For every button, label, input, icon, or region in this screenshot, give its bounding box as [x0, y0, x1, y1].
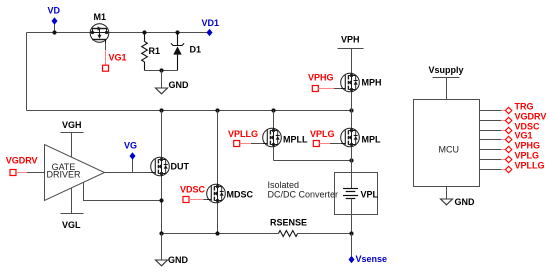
svg-text:VG: VG: [124, 141, 137, 151]
node VD (blue supply node on top rail): [48, 6, 61, 35]
svg-text:Vsupply: Vsupply: [429, 65, 464, 75]
svg-text:GND: GND: [168, 255, 189, 265]
wire: mid horizontal rail: [27, 110, 352, 112]
MCU pin VGDRV: [480, 112, 547, 124]
transistor MPH: [341, 73, 382, 92]
svg-text:VPL: VPL: [361, 190, 379, 200]
svg-text:VG1: VG1: [109, 53, 127, 63]
MCU pin VDSC: [480, 122, 541, 134]
transistor M1 (horizontal FET, gate down): [90, 12, 109, 43]
svg-text:VGL: VGL: [62, 220, 81, 230]
MCU pin VPLG: [480, 151, 540, 163]
junction dots on mid rail: [159, 108, 163, 112]
svg-text:VGDRV: VGDRV: [6, 156, 38, 166]
isolated DC/DC converter label: [268, 180, 339, 200]
VDSC gate terminal of MDSC: [180, 185, 207, 203]
svg-text:MPL: MPL: [362, 135, 382, 145]
ground (MCU): [441, 187, 476, 208]
svg-text:GND: GND: [169, 80, 190, 90]
svg-text:Vsense: Vsense: [356, 254, 388, 264]
Vsupply bar of MCU: [429, 65, 464, 100]
ground (bottom left): [156, 234, 189, 266]
svg-text:VPLG: VPLG: [515, 151, 540, 161]
MCU U2: [414, 100, 480, 187]
ground (R1/D1): [156, 71, 190, 94]
transistor MPLL: [263, 128, 308, 147]
MCU pin VPLLG: [480, 161, 545, 173]
transistor MDSC: [207, 184, 254, 203]
wire: left vertical drop: [26, 33, 28, 111]
svg-text:VPLG: VPLG: [310, 129, 335, 139]
transistor DUT: [151, 157, 190, 176]
node VD1: [202, 18, 220, 36]
svg-text:VGH: VGH: [62, 120, 82, 130]
junction: GND tap of R1/D1: [159, 68, 163, 72]
wire: MPLL/MPL source join: [274, 160, 352, 162]
VPLG gate terminal of MPL: [310, 129, 341, 147]
svg-text:MDSC: MDSC: [227, 190, 254, 200]
svg-text:VPLLG: VPLLG: [228, 129, 258, 139]
svg-text:DC/DC Converter: DC/DC Converter: [268, 190, 339, 200]
svg-text:VPHG: VPHG: [515, 141, 541, 151]
wire: top rail y=32 from left corner to VD1: [27, 32, 210, 34]
svg-text:VDSC: VDSC: [180, 185, 206, 195]
transistor MPL: [341, 128, 381, 147]
gate driver U1: [45, 145, 105, 201]
svg-text:VD: VD: [48, 6, 61, 16]
svg-text:VPLLG: VPLLG: [515, 161, 545, 171]
svg-text:VGDRV: VGDRV: [515, 112, 547, 122]
wire: MPH source down to rail and MPL drain: [351, 92, 353, 128]
svg-text:MCU: MCU: [439, 145, 460, 155]
VPLLG gate terminal of MPLL: [228, 129, 263, 147]
svg-text:M1: M1: [94, 12, 107, 22]
wire: kelvin source feedback to gate driver: [84, 182, 162, 200]
svg-text:R1: R1: [149, 46, 161, 56]
svg-text:DRIVER: DRIVER: [46, 170, 81, 180]
VPHG gate terminal of MPH: [308, 73, 341, 92]
VPL battery box: [335, 173, 379, 234]
MCU pin VPHG: [480, 141, 541, 153]
svg-text:GND: GND: [455, 197, 476, 207]
wire: MDSC column: [217, 111, 219, 234]
svg-text:MPLL: MPLL: [283, 135, 308, 145]
VGDRV input terminal: [6, 156, 45, 176]
wire: MPL source down to VPL battery: [351, 147, 353, 189]
svg-text:DUT: DUT: [171, 162, 190, 172]
MCU pin VG1: [480, 131, 533, 143]
VG1 gate terminal of M1: [103, 43, 127, 71]
resistor RSENSE: [270, 218, 307, 237]
junction dots on bottom rail: [159, 231, 163, 235]
svg-text:VD1: VD1: [202, 18, 220, 28]
wire: gate driver output to DUT gate: [105, 172, 153, 174]
wire: MPLL column: [273, 111, 275, 161]
svg-text:D1: D1: [190, 45, 202, 55]
svg-text:VPH: VPH: [341, 35, 360, 45]
diode D1 (zener, cathode up): [171, 30, 201, 70]
resistor R1: [142, 30, 160, 70]
svg-text:MPH: MPH: [362, 78, 382, 88]
wire: DUT drain column: [161, 111, 163, 234]
VGH supply bar of gate driver: [61, 120, 84, 157]
VGL supply bar of gate driver: [61, 188, 84, 230]
svg-text:Isolated: Isolated: [268, 180, 300, 190]
VPH supply bar: [338, 35, 364, 74]
MCU pin TRG: [480, 102, 534, 114]
svg-text:VPHG: VPHG: [308, 73, 334, 83]
svg-text:VG1: VG1: [515, 131, 533, 141]
node VG: [124, 141, 137, 173]
svg-text:TRG: TRG: [515, 102, 534, 112]
wire: bottom rail with RSENSE: [162, 233, 279, 235]
wire: R1-D1 bottom joining wire: [145, 70, 178, 72]
junction: feedback tap: [159, 198, 163, 202]
node Vsense: [349, 234, 388, 265]
svg-text:RSENSE: RSENSE: [270, 218, 307, 228]
